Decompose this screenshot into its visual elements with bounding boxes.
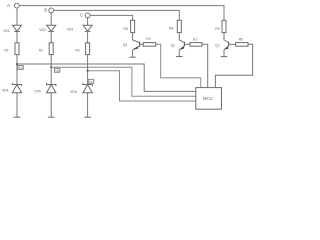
terminal A [14, 3, 19, 8]
wire R9 to MCU pin1 [156, 44, 201, 87]
svg-text:VD4: VD4 [2, 89, 9, 93]
wire C zener-ground [87, 93, 89, 117]
resistor R5 [236, 43, 248, 47]
wire tap A to MCU [17, 64, 196, 91]
wire R5 to MCU pin3 [215, 44, 252, 87]
node B junction [50, 66, 52, 68]
ground B [48, 116, 55, 118]
wire C resistor-zener [87, 55, 89, 85]
transistor Q2 [179, 42, 184, 50]
ground Q3 [129, 56, 136, 58]
svg-text:Ua: Ua [19, 66, 23, 70]
resistor R6 [177, 20, 181, 32]
svg-text:R4: R4 [215, 27, 219, 31]
wire A zener-ground [16, 93, 18, 117]
svg-text:VD3: VD3 [67, 27, 74, 31]
resistor R4 [222, 20, 226, 32]
zener VD5 [47, 83, 56, 93]
wire base Q1 [229, 43, 236, 45]
svg-text:VD1: VD1 [3, 29, 10, 33]
wire B column top [50, 13, 52, 25]
terminal B [49, 8, 54, 13]
svg-text:Ub: Ub [55, 69, 59, 73]
resistor R2 [49, 43, 53, 55]
wire B zener-ground [50, 93, 52, 117]
svg-text:R6: R6 [169, 26, 173, 30]
svg-text:R9: R9 [146, 37, 150, 41]
MCU U1 box [196, 88, 222, 110]
svg-text:VD2: VD2 [39, 28, 46, 32]
svg-text:Q2: Q2 [171, 43, 176, 47]
node C net label box [88, 79, 93, 83]
ground A [14, 116, 21, 118]
svg-text:C: C [80, 13, 83, 18]
wire bus C [90, 15, 133, 20]
wire base Q3 [140, 43, 144, 45]
wire C diode-resistor [87, 31, 89, 42]
svg-text:Q3: Q3 [123, 43, 128, 47]
wire R4-collector Q1 [224, 33, 229, 43]
svg-text:VD5: VD5 [34, 90, 41, 94]
svg-text:A: A [7, 3, 10, 8]
wire emitter Q2 [178, 50, 180, 57]
svg-text:R1: R1 [4, 49, 8, 53]
node C junction [87, 70, 89, 72]
svg-text:R2: R2 [39, 49, 43, 53]
node A junction [16, 63, 18, 65]
wire A diode-resistor [16, 31, 18, 42]
svg-text:MCU: MCU [203, 96, 213, 101]
wire base Q2 [184, 43, 190, 45]
wire B diode-resistor [50, 31, 52, 42]
resistor R3 [86, 43, 90, 55]
wire C column top [87, 18, 89, 26]
wire tap B to MCU [51, 67, 196, 96]
zener VD4 [12, 83, 21, 93]
resistor R1 [15, 43, 19, 55]
terminal C [85, 13, 90, 18]
wire R7 to MCU pin2 [202, 44, 208, 87]
wire A resistor-zener [16, 55, 18, 85]
wire A column top [16, 8, 18, 25]
svg-text:R8: R8 [123, 27, 127, 31]
svg-text:R7: R7 [193, 38, 197, 42]
transistor Q3 [133, 42, 140, 50]
wire bus B [54, 10, 180, 20]
diode VD1 [13, 25, 22, 31]
svg-text:Uc: Uc [89, 80, 93, 84]
wire emitter Q3 [132, 50, 134, 57]
wire bus A [19, 6, 224, 21]
wire emitter Q1 [223, 50, 225, 57]
resistor R8 [131, 20, 135, 32]
svg-text:R5: R5 [239, 38, 243, 42]
wire tap C to MCU [88, 71, 196, 101]
svg-text:Q1: Q1 [215, 44, 220, 48]
svg-text:VD6: VD6 [70, 90, 77, 94]
node A net label box [18, 66, 23, 70]
ground Q2 [176, 56, 183, 58]
wire R8-collector Q3 [133, 33, 140, 43]
diode VD3 [83, 25, 92, 31]
resistor R9 [143, 43, 155, 47]
diode VD2 [47, 25, 56, 31]
ground Q1 [221, 56, 228, 58]
svg-text:B: B [44, 8, 47, 13]
svg-text:R3: R3 [75, 49, 79, 53]
wire B resistor-zener [50, 55, 52, 85]
ground C [84, 116, 91, 118]
transistor Q1 [224, 42, 229, 50]
resistor R7 [190, 43, 202, 47]
wire R6-collector Q2 [179, 33, 184, 43]
node B net label box [54, 68, 59, 72]
zener VD6 [83, 83, 92, 93]
